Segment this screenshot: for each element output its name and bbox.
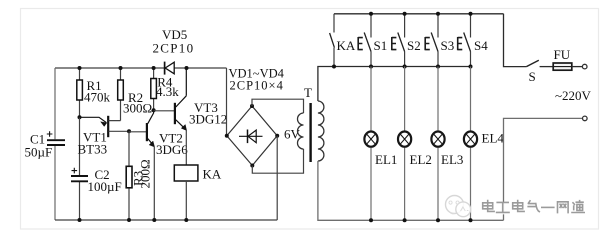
node: S3 top on feeder rail [436, 12, 440, 16]
glyph 网 [558, 202, 569, 213]
diode VD5 (2CP10) [153, 27, 195, 75]
lamp EL1 [364, 67, 397, 221]
svg-text:3DG6: 3DG6 [156, 142, 188, 157]
transistor VT3 (3DG12) [154, 68, 228, 165]
lamp EL3 [431, 67, 463, 221]
node: S1 bottom / EL1 top on switch bus [369, 65, 373, 69]
svg-text:100µF: 100µF [88, 179, 122, 194]
capacitor C1 [25, 131, 66, 159]
switch S4 [458, 14, 489, 67]
node: S4 top on feeder rail [469, 12, 473, 16]
transformer T primary winding [318, 101, 324, 161]
wire bottom rail left block [55, 219, 277, 221]
terminal lower mains [583, 116, 588, 121]
glyph 一 [542, 206, 554, 208]
wire lamp rail up to mains terminal [504, 118, 583, 220]
node: VD5 cathode / VT3 collector [185, 66, 189, 70]
svg-text:FU: FU [554, 47, 571, 62]
node B: VT1 B1 / VT2 base / R3 junction [127, 129, 131, 133]
node: R2 top [119, 66, 123, 70]
capacitor C2 [71, 117, 122, 220]
node: bridge right vertex [275, 134, 279, 138]
svg-text:470k: 470k [84, 90, 111, 105]
node A: R1 / VT1 emitter / C2 junction [78, 115, 82, 119]
transistor VT1 (BT33) [78, 116, 130, 157]
svg-text:EL1: EL1 [375, 152, 397, 167]
wire to bridge left vertex [226, 68, 228, 136]
lamp EL2 [398, 67, 432, 221]
fuse FU [553, 47, 572, 70]
wire top feeder rail [334, 13, 504, 15]
svg-text:T: T [304, 85, 312, 100]
wire bridge bottom vertex to transformer secondary bottom [252, 149, 303, 173]
node: bridge bottom vertex [250, 164, 254, 168]
node: EL3 bottom on lamp rail [436, 218, 440, 222]
svg-text:2CP10: 2CP10 [153, 41, 195, 56]
svg-text:300Ω: 300Ω [123, 101, 152, 116]
glyph 电 [513, 201, 524, 212]
svg-text:S3: S3 [441, 38, 455, 53]
glyph 通 [572, 201, 584, 213]
transistor VT2 (3DG6) [129, 110, 188, 220]
node: EL4 bottom on lamp rail [469, 218, 473, 222]
switch S1 [358, 14, 387, 67]
svg-text:S: S [529, 69, 536, 84]
svg-text:2CP10×4: 2CP10×4 [230, 79, 284, 93]
svg-text:KA: KA [337, 38, 356, 53]
node: R4 top / VD5 anode [152, 66, 156, 70]
resistor R4 [151, 68, 179, 110]
switch S [526, 60, 538, 66]
node: S1 top on feeder rail [369, 12, 373, 16]
node: S2 top on feeder rail [403, 12, 407, 16]
glyph 工 [497, 202, 509, 212]
svg-text:3DG12: 3DG12 [189, 112, 227, 127]
watermark logo [446, 196, 471, 217]
node: EL2 bottom on lamp rail [403, 218, 407, 222]
svg-text:EL3: EL3 [441, 152, 463, 167]
node: S4 bottom / EL4 top on switch bus [469, 65, 473, 69]
transformer core [309, 103, 311, 162]
node: R1 top [78, 66, 82, 70]
watermark text 电工电气一网通 (white emboss underlay) [484, 202, 585, 214]
node: EL1 bottom on lamp rail [369, 218, 373, 222]
svg-text:BT33: BT33 [78, 142, 108, 157]
node: R3 bottom on rail [127, 218, 131, 222]
svg-text:S4: S4 [474, 38, 488, 53]
switch S3 [425, 14, 454, 67]
wire top rail of oscillator [55, 67, 227, 69]
wire primary bottom to lamp rail [318, 161, 504, 220]
node: VT2 emitter on rail [152, 218, 156, 222]
node: S3 bottom / EL3 top on switch bus [436, 65, 440, 69]
node: S2 bottom / EL2 top on switch bus [403, 65, 407, 69]
node: relay bottom on rail [184, 218, 188, 222]
watermark text 电工电气一网通 [483, 201, 585, 213]
transformer T secondary winding [298, 113, 304, 149]
node C: R4 / VT2 collector / VT3 base junction [152, 108, 156, 112]
node: bridge top vertex [250, 104, 254, 108]
node: KA bottom on switch bus [332, 65, 336, 69]
node: C2 bottom on rail [78, 218, 82, 222]
glyph 电 [483, 201, 494, 212]
svg-text:~220V: ~220V [555, 88, 592, 103]
wire bridge top vertex to transformer secondary top [252, 99, 304, 113]
switch KA (relay contact) [330, 14, 356, 67]
svg-text:200Ω: 200Ω [138, 159, 153, 188]
wire bridge right vertex to bottom rail [276, 136, 278, 220]
resistor R1 [77, 68, 111, 117]
wire fuse to terminal [572, 66, 583, 68]
node: bridge left vertex [225, 134, 229, 138]
bridge rectifier VD1~VD4 diamond [227, 67, 301, 166]
glyph 气 [528, 201, 539, 212]
switch S2 [392, 14, 421, 67]
resistor R2 [118, 68, 152, 121]
svg-text:KA: KA [203, 167, 222, 182]
relay coil KA [174, 165, 222, 220]
svg-text:S2: S2 [407, 38, 421, 53]
svg-text:50µF: 50µF [25, 145, 53, 160]
wire top rail down to switch S [504, 14, 527, 67]
wire S to fuse [540, 66, 554, 68]
resistor R3 [126, 131, 152, 220]
wire primary top to switch bus [318, 67, 471, 102]
svg-text:S1: S1 [374, 38, 388, 53]
wire left vertical with C1 [54, 68, 56, 220]
svg-text:4.3k: 4.3k [156, 84, 179, 99]
terminal upper mains [582, 64, 587, 69]
svg-text:EL2: EL2 [410, 152, 432, 167]
svg-text:EL4: EL4 [482, 131, 505, 146]
lamp EL4 [464, 67, 504, 221]
